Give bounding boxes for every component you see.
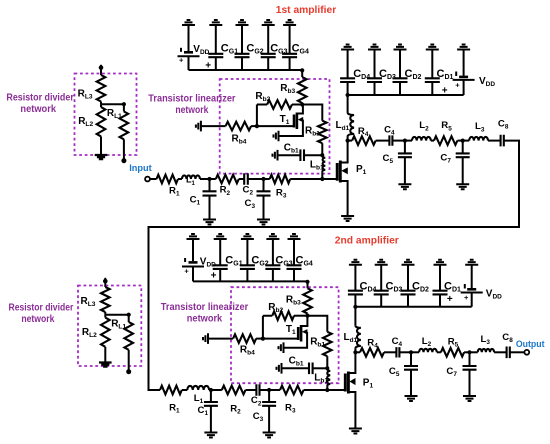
- wire: [439, 265, 441, 307]
- ground (up) above CD3 2nd amp: [375, 260, 388, 265]
- svg-text:CG1: CG1: [225, 254, 242, 267]
- svg-text:+: +: [447, 294, 453, 305]
- ground below C7 1st amp: [456, 184, 469, 189]
- wire: [463, 50, 465, 96]
- capacitor Cb1 1st amp: [278, 154, 301, 156]
- resistor R3 2nd amp: [269, 389, 280, 391]
- wire: [192, 239, 194, 281]
- node: C3 junction 2nd amp: [267, 388, 271, 392]
- ground (left) for Rb4 1st amp: [196, 121, 201, 132]
- resistor R4 1st amp: [348, 140, 353, 142]
- wire: Rb1 top 2nd amp: [308, 316, 328, 332]
- node: C1 junction 1st amp: [207, 177, 211, 181]
- capacitor CG1 1st amp: [208, 54, 223, 57]
- wire: T1 gate 2nd amp: [263, 338, 297, 340]
- node: Lb1 to signal line 2nd amp: [325, 388, 329, 392]
- capacitor CD4 1st amp: [340, 78, 355, 82]
- ground below P1 source 2nd amp: [349, 429, 362, 434]
- terminal node below RL1 2nd amp: [126, 369, 131, 374]
- wire: interstage wrap-around: [149, 141, 520, 390]
- svg-text:C7: C7: [440, 153, 451, 165]
- capacitor CG2 1st amp: [235, 54, 250, 57]
- inductor Ld1 2nd amp: [354, 307, 356, 325]
- wire: [267, 25, 269, 70]
- svg-text:R3: R3: [276, 187, 287, 199]
- svg-text:CG4: CG4: [292, 42, 309, 55]
- node: C7 junction 1st amp: [461, 139, 465, 143]
- ground below C1 2nd amp: [204, 433, 217, 438]
- resistor R1 1st amp: [150, 178, 157, 180]
- node: rail to Rb3 2nd amp: [305, 280, 309, 284]
- svg-text:CD1: CD1: [437, 68, 454, 81]
- inductor L2 1st amp: [405, 140, 412, 142]
- svg-text:Transistor linearizer: Transistor linearizer: [161, 302, 249, 313]
- svg-text:C5: C5: [389, 366, 400, 378]
- ground (up) above CG1 1st amp: [209, 20, 222, 25]
- svg-text:Rb3: Rb3: [286, 295, 301, 307]
- ground (up) above CD2 2nd amp: [402, 260, 415, 265]
- svg-text:R1: R1: [169, 185, 180, 197]
- svg-text:Rb4: Rb4: [232, 134, 247, 146]
- capacitor C8 2nd amp: [507, 347, 510, 359]
- svg-text:VDD: VDD: [193, 44, 209, 56]
- wire: [246, 239, 248, 281]
- wire: Rb1 top 1st amp: [302, 105, 322, 121]
- capacitor C1 2nd amp: [210, 390, 212, 402]
- svg-text:network: network: [21, 314, 55, 325]
- svg-text:VDD: VDD: [200, 256, 216, 268]
- resistor RL1 2nd amp: [128, 315, 130, 322]
- svg-text:C2: C2: [243, 185, 254, 197]
- capacitor C1 1st amp: [209, 179, 211, 191]
- ground (up) above VDD battery 2nd amp: [465, 260, 478, 265]
- wire: T1 gate 1st amp: [257, 125, 293, 127]
- capacitor CG3 2nd amp: [265, 265, 280, 269]
- node: T1 gate junction 1st amp: [255, 124, 259, 128]
- capacitor C4 2nd amp: [396, 347, 399, 357]
- svg-text:C1: C1: [190, 195, 201, 207]
- wire: divider junction 1st amp: [101, 103, 124, 105]
- svg-text:Resistor divider: Resistor divider: [9, 302, 74, 313]
- svg-text:CG1: CG1: [221, 42, 238, 55]
- node: C1 junction 2nd amp: [209, 388, 213, 392]
- svg-text:RL1: RL1: [107, 108, 122, 120]
- wire: divider junction 2nd amp: [105, 314, 128, 316]
- svg-text:Cb1: Cb1: [284, 143, 299, 155]
- node: rail to Ld1 1st amp: [346, 93, 350, 97]
- node: Lb1 to signal line 1st amp: [320, 177, 324, 181]
- ground (up) above CD4 1st amp: [341, 45, 354, 50]
- ground (up) above CD1 2nd amp: [434, 260, 447, 265]
- inductor L3 1st amp: [463, 140, 470, 142]
- ground (up) above CD4 2nd amp: [349, 260, 362, 265]
- terminal node above RL3 2nd amp: [103, 279, 108, 284]
- capacitor CD3 2nd amp: [374, 291, 389, 295]
- battery tick: [184, 258, 186, 262]
- capacitor CD3 1st amp: [367, 78, 382, 82]
- node: rail to Rb3 1st amp: [300, 68, 304, 72]
- capacitor C5 1st amp: [404, 141, 406, 154]
- svg-text:L2: L2: [422, 336, 432, 348]
- dashed box: transistor linearizer network 2nd amp: [231, 287, 339, 383]
- inductor L1 1st amp: [182, 175, 200, 179]
- resistor RL2 2nd amp: [104, 315, 106, 318]
- capacitor C5 2nd amp: [410, 352, 412, 366]
- wire: [219, 239, 221, 281]
- capacitor Cb1 2nd amp: [282, 367, 310, 369]
- inductor Ld1 1st amp: [347, 95, 349, 112]
- wire: [431, 50, 433, 96]
- node: Rb1/Cb1/Lb1 1st amp: [320, 153, 324, 157]
- svg-text:T1: T1: [280, 114, 290, 126]
- svg-text:CG4: CG4: [296, 254, 313, 267]
- wire: [374, 50, 376, 96]
- svg-text:network: network: [175, 105, 208, 116]
- svg-text:CG2: CG2: [246, 42, 263, 55]
- capacitor CD1 1st amp: [425, 78, 440, 82]
- svg-text:R5: R5: [448, 336, 459, 348]
- inductor Lb1 1st amp: [322, 155, 325, 172]
- node: T1 gate junction 2nd amp: [261, 337, 265, 341]
- capacitor C3 1st amp: [263, 179, 265, 191]
- wire: [272, 239, 274, 281]
- svg-text:2nd amplifier: 2nd amplifier: [335, 235, 399, 247]
- node: C3 junction 1st amp: [261, 177, 265, 181]
- svg-text:1st amplifier: 1st amplifier: [276, 4, 337, 16]
- capacitor CD2 1st amp: [393, 78, 408, 82]
- capacitor CG4 2nd amp: [287, 265, 302, 269]
- ground (up) above CG3 2nd amp: [266, 234, 279, 239]
- svg-text:R2: R2: [230, 404, 241, 416]
- ground (up) above VDD battery 1st amp: [182, 20, 195, 25]
- inductor L3 2nd amp: [470, 351, 478, 353]
- svg-text:T1: T1: [286, 324, 296, 336]
- gate supply rail 1st amp: [189, 69, 303, 71]
- ground below C1 1st amp: [203, 220, 216, 225]
- battery VDD 1st amp gate side: [184, 51, 193, 54]
- ground below C3 1st amp: [257, 220, 270, 225]
- resistor R3 1st amp: [264, 178, 270, 180]
- wire: [471, 265, 473, 307]
- drain supply rail 1st amp: [348, 94, 464, 96]
- resistor R2 1st amp: [210, 178, 216, 180]
- wire: [347, 50, 349, 96]
- svg-text:Resistor divider: Resistor divider: [6, 93, 74, 104]
- ground (up) above CG4 2nd amp: [288, 234, 301, 239]
- svg-text:+: +: [464, 293, 469, 302]
- node: C7 junction 2nd amp: [467, 350, 471, 354]
- wire: [215, 25, 217, 70]
- svg-text:CG3: CG3: [270, 42, 287, 55]
- svg-text:C4: C4: [392, 336, 403, 348]
- capacitor CD1 2nd amp: [433, 291, 448, 295]
- capacitor CD4 2nd amp: [348, 291, 363, 295]
- capacitor CG4 1st amp: [282, 54, 297, 57]
- svg-text:network: network: [187, 314, 223, 325]
- svg-text:RL3: RL3: [78, 89, 93, 101]
- resistor Rb1 1st amp: [318, 121, 327, 144]
- svg-text:CD2: CD2: [405, 68, 422, 81]
- svg-text:R4: R4: [367, 337, 378, 349]
- resistor Rb2 2nd amp: [294, 315, 308, 317]
- node: Rb1/Cb1/Lb1 2nd amp: [325, 366, 329, 370]
- svg-text:CD3: CD3: [379, 68, 396, 81]
- svg-text:C8: C8: [502, 332, 513, 344]
- node: Ld1/R4/P1 drain 2nd amp: [353, 350, 357, 354]
- ground (left) T1 source 2nd amp: [279, 342, 284, 353]
- inductor Lb1 2nd amp: [327, 368, 330, 386]
- svg-text:Rb4: Rb4: [240, 345, 255, 357]
- transistor P1 1st amp: [336, 163, 339, 181]
- wire: [241, 25, 243, 70]
- terminal node above RL3 1st amp: [99, 65, 104, 70]
- capacitor C7 2nd amp: [469, 352, 471, 366]
- svg-text:Lb1: Lb1: [314, 373, 328, 385]
- svg-text:C2: C2: [251, 395, 262, 407]
- node: Rb3/Rb2/T1 drain 1st amp: [300, 102, 304, 106]
- resistor Rb4 2nd amp: [208, 338, 233, 340]
- capacitor C4 1st amp: [389, 135, 392, 145]
- ground below C5 1st amp: [398, 184, 411, 189]
- capacitor C2 1st amp: [244, 173, 248, 185]
- ground (up) above VDD battery 1st amp: [457, 45, 470, 50]
- node: rail to Ld1 2nd amp: [353, 305, 357, 309]
- capacitor C8 1st amp: [501, 135, 504, 147]
- capacitor CG2 2nd amp: [240, 265, 255, 269]
- ground below C7 2nd amp: [463, 396, 476, 401]
- svg-text:L1: L1: [194, 393, 204, 405]
- svg-text:Transistor linearizer: Transistor linearizer: [148, 94, 235, 105]
- ground (up) above CG3 1st amp: [262, 20, 275, 25]
- dashed box: resistor divider network 2nd amp: [78, 286, 141, 367]
- svg-text:L3: L3: [475, 121, 485, 133]
- svg-text:Cb1: Cb1: [289, 356, 304, 368]
- capacitor CG3 1st amp: [261, 54, 276, 57]
- resistor R4 2nd amp: [355, 351, 360, 353]
- svg-text:Rb2: Rb2: [255, 91, 270, 103]
- ground (left) T1 source 1st amp: [274, 131, 279, 142]
- svg-text:L2: L2: [419, 120, 429, 132]
- wire: [399, 50, 401, 96]
- capacitor C7 1st amp: [462, 141, 464, 154]
- svg-text:Ld1: Ld1: [336, 120, 350, 132]
- svg-text:+: +: [184, 266, 189, 275]
- wire: [380, 265, 382, 307]
- svg-text:Lb1: Lb1: [310, 160, 324, 172]
- output terminal: [524, 350, 529, 355]
- dashed box: transistor linearizer network 1st amp: [220, 79, 330, 174]
- battery tick: [455, 72, 457, 77]
- resistor Rb3 1st amp: [301, 70, 303, 77]
- svg-text:network: network: [20, 104, 56, 115]
- svg-text:CG3: CG3: [275, 254, 292, 267]
- resistor R5 2nd amp: [441, 348, 464, 357]
- transistor T1 2nd amp: [297, 327, 300, 340]
- wire: [407, 265, 409, 307]
- svg-text:R5: R5: [441, 120, 452, 132]
- node: Ld1/R4/P1 drain 1st amp: [346, 139, 350, 143]
- resistor RL3 1st amp: [100, 65, 102, 75]
- inductor L2 2nd amp: [411, 351, 419, 353]
- svg-text:C8: C8: [498, 118, 509, 130]
- battery tick: [180, 48, 182, 52]
- svg-text:C5: C5: [383, 153, 394, 165]
- svg-text:R4: R4: [358, 126, 369, 138]
- wire: [289, 25, 291, 70]
- svg-text:CD3: CD3: [386, 280, 403, 293]
- ground (up) above CG2 2nd amp: [241, 234, 254, 239]
- svg-text:R2: R2: [220, 185, 231, 197]
- ground (left) for Cb1 1st amp: [273, 150, 278, 161]
- resistor Rb4 1st amp: [201, 125, 226, 127]
- terminal node below RL1 1st amp: [121, 158, 126, 163]
- svg-text:RL2: RL2: [82, 327, 97, 339]
- resistor RL3 2nd amp: [104, 278, 106, 287]
- resistor R1 2nd amp: [160, 386, 182, 395]
- bold ground below RL2 1st amp: [95, 155, 108, 159]
- resistor Rb1 2nd amp: [323, 332, 332, 356]
- svg-text:C4: C4: [384, 125, 395, 137]
- wire: [293, 239, 295, 281]
- ground (up) above CG2 1st amp: [236, 20, 249, 25]
- svg-text:+: +: [455, 81, 460, 90]
- svg-text:VDD: VDD: [479, 76, 495, 88]
- svg-text:CD4: CD4: [360, 280, 377, 293]
- ground below C5 2nd amp: [405, 396, 418, 401]
- svg-text:Rb3: Rb3: [280, 83, 295, 95]
- ground below C3 2nd amp: [263, 433, 276, 438]
- battery VDD drain side 1st amp: [459, 76, 468, 79]
- node: RL1 top 2nd amp: [127, 313, 131, 317]
- svg-text:P1: P1: [356, 164, 367, 176]
- ground (up) above CD1 1st amp: [426, 45, 439, 50]
- resistor Rb2 1st amp: [292, 104, 302, 106]
- svg-text:+: +: [179, 56, 184, 65]
- svg-text:C3: C3: [245, 198, 256, 210]
- resistor R5 1st amp: [434, 136, 457, 145]
- svg-text:RL2: RL2: [78, 116, 93, 128]
- node: C5 junction 1st amp: [403, 139, 407, 143]
- svg-text:RL3: RL3: [81, 296, 96, 308]
- resistor RL1 1st amp: [123, 104, 125, 111]
- wire to output: [510, 351, 525, 353]
- ground (left) for Cb1 2nd amp: [277, 363, 282, 374]
- svg-text:CD2: CD2: [412, 280, 429, 293]
- svg-text:CD4: CD4: [353, 68, 370, 81]
- resistor RL2 1st amp: [100, 104, 102, 107]
- svg-text:C7: C7: [446, 366, 457, 378]
- resistor Rb3 2nd amp: [307, 282, 309, 289]
- node: Rb3/Rb2/T1 drain 2nd amp: [305, 314, 309, 318]
- ground (up) above CD2 1st amp: [394, 45, 407, 50]
- node: RL1 top 1st amp: [122, 102, 126, 106]
- svg-text:P1: P1: [363, 378, 374, 390]
- transistor P1 2nd amp: [344, 374, 347, 392]
- svg-text:R3: R3: [285, 403, 296, 415]
- capacitor C2 2nd amp: [256, 384, 259, 396]
- dashed box: resistor divider network 1st amp: [75, 74, 137, 156]
- battery tick: [464, 284, 466, 289]
- ground (up) above CD3 1st amp: [368, 45, 381, 50]
- input terminal 1st amp: [145, 177, 150, 182]
- capacitor CG1 2nd amp: [213, 265, 228, 269]
- inductor L1 2nd amp: [187, 386, 209, 390]
- svg-text:Ld1: Ld1: [344, 332, 358, 344]
- resistor R2 2nd amp: [209, 389, 222, 391]
- capacitor C3 2nd amp: [268, 390, 270, 402]
- ground (up) above CG1 2nd amp: [214, 234, 227, 239]
- ground below P1 source 1st amp: [341, 216, 354, 221]
- svg-text:L3: L3: [481, 334, 491, 346]
- node: C5 junction 2nd amp: [409, 350, 413, 354]
- svg-text:Output: Output: [516, 339, 545, 349]
- svg-text:CG2: CG2: [251, 254, 268, 267]
- ground (up) above CG4 1st amp: [283, 20, 296, 25]
- transistor T1 1st amp: [293, 115, 296, 128]
- battery VDD drain side 2nd amp: [467, 288, 476, 291]
- svg-text:Rb2: Rb2: [268, 302, 283, 314]
- svg-text:RL1: RL1: [111, 319, 126, 331]
- svg-text:+: +: [211, 271, 217, 282]
- svg-text:Input: Input: [129, 163, 152, 173]
- capacitor CD2 2nd amp: [401, 291, 416, 295]
- battery VDD 2nd amp gate side: [189, 261, 198, 264]
- wire: [354, 265, 356, 307]
- svg-text:CD1: CD1: [444, 280, 461, 293]
- wire: [188, 25, 190, 70]
- svg-text:VDD: VDD: [486, 289, 502, 301]
- svg-text:R1: R1: [169, 403, 180, 415]
- ground (left) for Rb4 2nd amp: [203, 333, 208, 344]
- svg-text:C3: C3: [253, 411, 264, 423]
- gate supply rail 2nd amp: [193, 280, 308, 282]
- bold ground below RL2 2nd amp: [99, 363, 112, 367]
- drain supply rail 2nd amp: [355, 306, 471, 308]
- ground (up) above VDD battery 2nd amp: [187, 234, 200, 239]
